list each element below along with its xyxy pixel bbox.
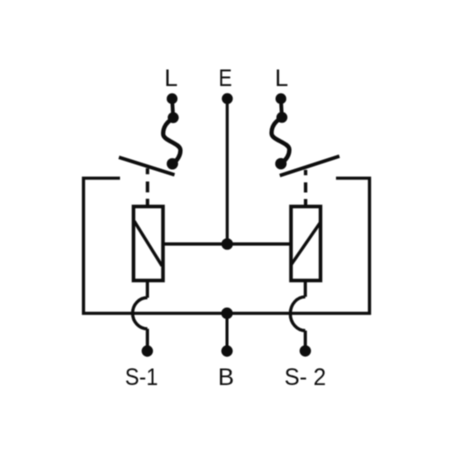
svg-text:E: E: [219, 65, 232, 92]
svg-text:L: L: [164, 65, 177, 92]
svg-text:S-1: S-1: [125, 364, 158, 391]
svg-text:S- 2: S- 2: [284, 364, 326, 391]
svg-text:L: L: [275, 65, 288, 92]
svg-text:B: B: [218, 364, 234, 391]
